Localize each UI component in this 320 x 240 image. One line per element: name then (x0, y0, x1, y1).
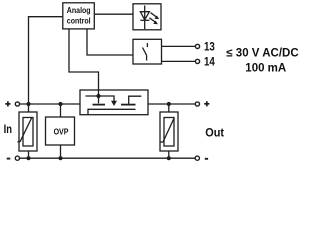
mosfet output stage box (80, 90, 148, 115)
varistor R1 bottom lead (28, 151, 30, 158)
varistor R2 foot (160, 141, 163, 143)
terminal 14 circle (195, 59, 199, 63)
varistor R1 foot (17, 141, 20, 143)
mosfet Q1 left: channel bar (93, 104, 106, 106)
mosfet internal: body diode arrow (111, 101, 117, 106)
output terminal - circle (195, 156, 199, 160)
node: varistor R1 bottom junction (26, 156, 30, 160)
mosfet Q1 left: drain stub (98, 96, 100, 103)
varistor R2 output box (160, 112, 178, 151)
LED indicator box (133, 4, 161, 30)
input terminal + circle (15, 102, 19, 106)
svg-text:Analog: Analog (67, 5, 91, 15)
switch contact symbol (143, 43, 148, 61)
LED emission arrow 2 (149, 18, 158, 24)
svg-text:13: 13 (204, 41, 215, 54)
LED diode symbol (140, 6, 149, 30)
switch (feedback contact) box (133, 39, 162, 64)
label: input - sign (7, 158, 11, 160)
node: varistor R1 top junction (26, 102, 30, 106)
wire: switch to terminal 13 (162, 45, 196, 47)
svg-text:Out: Out (205, 127, 224, 139)
input terminal - circle (15, 156, 19, 160)
wire: mosfet to output + rail (148, 103, 195, 105)
svg-text:OVP: OVP (54, 127, 69, 137)
label: input + sign (5, 101, 10, 106)
svg-text:14: 14 (204, 56, 215, 69)
varistor R1 inner rectangle (23, 118, 33, 147)
LED emission arrow 1 (151, 13, 160, 19)
varistor R2 inner rectangle (164, 118, 174, 147)
mosfet Q2 right: drain line (129, 96, 142, 104)
terminal 13 circle (195, 44, 199, 48)
svg-text:100 mA: 100 mA (245, 63, 286, 75)
mosfet internal: drain line with gate node (86, 96, 115, 101)
label: output - sign (205, 158, 208, 160)
node: mosfet gate junction (96, 94, 100, 98)
OVP top lead (60, 104, 62, 117)
wire: analog control to mosfet gate (69, 29, 99, 96)
wire: analog control to switch box (87, 29, 133, 55)
label: output + sign (204, 101, 209, 106)
wire: switch to terminal 14 (162, 60, 196, 62)
svg-text:control: control (67, 16, 91, 26)
node: varistor R2 bottom junction (167, 156, 171, 160)
varistor R1 diagonal (20, 118, 32, 142)
mosfet Q2 right: channel bar (121, 104, 136, 106)
input + rail (20, 103, 80, 105)
varistor R2 bottom lead (168, 151, 170, 158)
node: OVP bottom junction (58, 156, 62, 160)
output terminal + circle (195, 102, 199, 106)
wire: analog control to LED box (94, 13, 133, 15)
node: output varistor top junction (167, 102, 171, 106)
varistor R2 output: top lead (168, 104, 170, 112)
analog control box U1 (63, 3, 95, 29)
mosfet common gate line (88, 109, 136, 114)
node: OVP top junction (58, 102, 62, 106)
label: Analog control text (67, 5, 91, 25)
OVP box (46, 117, 75, 145)
svg-text:≤ 30 V AC/DC: ≤ 30 V AC/DC (226, 48, 298, 60)
varistor R1 input box (19, 112, 37, 151)
svg-text:In: In (4, 123, 12, 136)
minus rail (20, 157, 196, 159)
OVP bottom lead (60, 145, 62, 158)
varistor R2 diagonal (163, 118, 174, 142)
wire: input + to analog control riser (29, 17, 63, 104)
varistor R1 input: top lead (28, 104, 30, 112)
